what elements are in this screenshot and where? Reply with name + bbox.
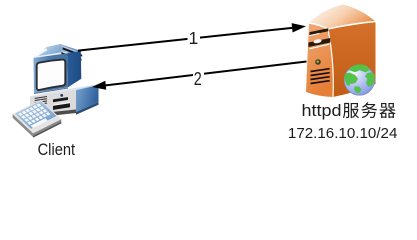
svg-text:2: 2 bbox=[194, 69, 202, 89]
svg-text:172.16.10.10/24: 172.16.10.10/24 bbox=[288, 125, 398, 142]
svg-text:1: 1 bbox=[189, 28, 199, 48]
svg-text:httpd: httpd bbox=[302, 101, 342, 120]
svg-text:Client: Client bbox=[38, 141, 76, 159]
